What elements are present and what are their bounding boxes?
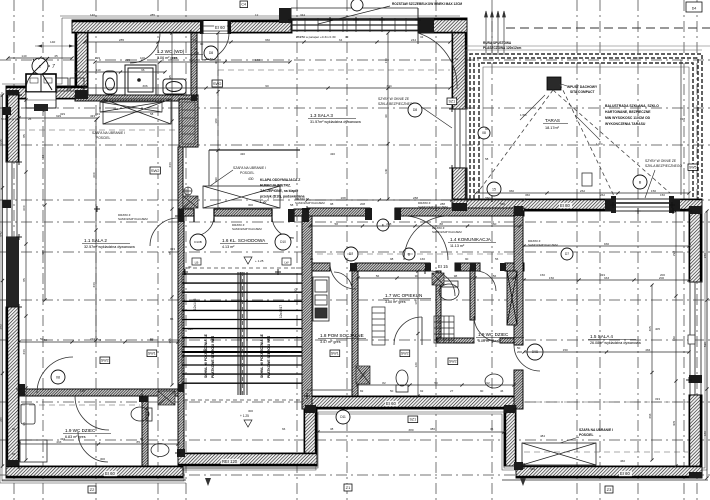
- svg-text:SW2: SW2: [213, 81, 222, 86]
- svg-text:95: 95: [168, 75, 172, 79]
- dim chain baths: [356, 383, 515, 386]
- exterior bottom-right wall (EI 60): [516, 466, 702, 478]
- svg-text:640: 640: [0, 231, 2, 236]
- corridor south wall seg a: [307, 263, 330, 271]
- svg-text:EI 60: EI 60: [215, 25, 225, 30]
- ei labels: [214, 25, 227, 30]
- terrace dashed slope diagonals: [478, 90, 553, 192]
- svg-text:90: 90: [480, 389, 484, 393]
- svg-text:155: 155: [168, 338, 172, 343]
- svg-text:333: 333: [41, 155, 45, 160]
- svg-text:56: 56: [495, 257, 499, 261]
- svg-text:34: 34: [339, 38, 343, 42]
- svg-text:430: 430: [330, 152, 335, 156]
- dim chain x218 sala3: [216, 31, 219, 210]
- door jamb marks corridor north: [194, 208, 395, 222]
- exterior notch right vertical wall: [504, 409, 516, 466]
- svg-text:250: 250: [296, 35, 301, 39]
- stair side edges: [182, 274, 302, 390]
- svg-text:ZACZEPIONE, na klapie: ZACZEPIONE, na klapie: [260, 189, 298, 193]
- dim chain corridor lower: [308, 224, 521, 227]
- svg-text:D10: D10: [280, 240, 286, 244]
- svg-text:329: 329: [60, 112, 65, 116]
- svg-text:930: 930: [604, 242, 609, 246]
- svg-text:120: 120: [414, 362, 418, 367]
- svg-text:360: 360: [525, 193, 530, 197]
- shower center grid: [434, 316, 454, 343]
- wall step block at x=280: [279, 8, 291, 23]
- stair center stringer: [238, 272, 247, 395]
- toilet wc 1.2: [103, 71, 117, 94]
- svg-text:58: 58: [150, 112, 154, 116]
- axis circle 08 right wall: [478, 127, 490, 139]
- svg-text:50: 50: [294, 288, 298, 292]
- terrace slope arrow 2: [575, 115, 600, 140]
- svg-text:SW1: SW1: [148, 352, 156, 356]
- door circle E corridor: [377, 219, 389, 231]
- svg-text:484: 484: [645, 348, 650, 352]
- svg-text:SW2: SW2: [151, 168, 160, 173]
- circle cross marker alcove: [184, 187, 192, 195]
- wc 1.2 bottom wall: [75, 95, 198, 101]
- svg-text:L.27: L.27: [260, 200, 267, 204]
- porch door frame: [26, 74, 56, 92]
- svg-text:250 a parapet +0.3m 0.30: 250 a parapet +0.3m 0.30: [300, 35, 336, 39]
- svg-text:SZYBY W OKNIE ZE: SZYBY W OKNIE ZE: [645, 159, 677, 163]
- wardrobe crossed box sala4: [522, 443, 596, 465]
- svg-text:32.57m² wykladzina dywanowa: 32.57m² wykladzina dywanowa: [84, 245, 136, 249]
- svg-text:360: 360: [265, 38, 270, 42]
- svg-text:90: 90: [384, 114, 388, 118]
- svg-text:405: 405: [655, 327, 660, 331]
- porch dim 140: [35, 45, 76, 47]
- dim chain left outer: [1, 93, 4, 467]
- svg-text:SW1: SW1: [331, 352, 339, 356]
- svg-text:56: 56: [376, 274, 380, 278]
- svg-text:208: 208: [360, 202, 365, 206]
- svg-text:96: 96: [141, 68, 145, 72]
- dim chain terrace right: [680, 60, 682, 195]
- axis circle 2 porch: [32, 58, 48, 74]
- svg-text:1.6 KL. SCHODOWA: 1.6 KL. SCHODOWA: [222, 238, 266, 243]
- axis circle 08 sala2: [51, 370, 65, 384]
- svg-text:B: B: [639, 180, 642, 184]
- svg-text:95: 95: [22, 389, 26, 393]
- sala4 west wall lower: [514, 370, 523, 409]
- room label wc 1.2: [155, 49, 203, 60]
- exterior wall right of sala3 upper: [452, 33, 467, 109]
- label SW1 pom: [330, 350, 340, 357]
- svg-text:90: 90: [465, 257, 469, 261]
- left wall dark segment (shutter box): [6, 237, 19, 307]
- terrace south wall right part: [672, 199, 702, 211]
- center bath wall 2: [470, 271, 475, 320]
- door arc sala2 southwest: [37, 357, 73, 393]
- shower wc 1.2: [125, 65, 156, 95]
- dim chain right outer: [705, 209, 708, 479]
- svg-text:31.57m² wykladzina dywanowa: 31.57m² wykladzina dywanowa: [310, 120, 362, 124]
- big arc corridor second: [404, 216, 448, 260]
- exterior right wall upper: [689, 211, 702, 282]
- duct inner lines: [182, 102, 195, 144]
- svg-text:405: 405: [648, 326, 652, 331]
- label SZ1 top: [447, 98, 457, 105]
- door circle B corridor: [403, 248, 415, 260]
- svg-text:35: 35: [490, 427, 494, 431]
- svg-text:15: 15: [492, 187, 496, 191]
- svg-text:344: 344: [300, 13, 305, 17]
- svg-text:150: 150: [651, 189, 656, 193]
- tub wc dziec: [20, 440, 47, 462]
- stair top landing triangle: [244, 257, 252, 264]
- second door arc wc wd: [130, 33, 160, 63]
- svg-text:140: 140: [90, 13, 95, 17]
- svg-text:430: 430: [240, 152, 245, 156]
- svg-text:HH: HH: [287, 350, 291, 354]
- toilet center 1: [439, 281, 459, 300]
- room label komunikacja: [448, 237, 496, 248]
- svg-text:484: 484: [530, 467, 535, 471]
- svg-text:198: 198: [80, 389, 85, 393]
- svg-text:1.9 WC DZIEC: 1.9 WC DZIEC: [478, 332, 509, 337]
- door circle D10B: [190, 234, 206, 250]
- duct shaft block right of wc: [179, 99, 198, 147]
- door circle D11 notch: [336, 410, 350, 424]
- dim chain left inner2: [43, 108, 46, 301]
- svg-text:POSCIEL: POSCIEL: [579, 433, 593, 437]
- svg-text:SZKLA BEZPIECZNEGO: SZKLA BEZPIECZNEGO: [645, 164, 682, 168]
- svg-text:85: 85: [22, 278, 26, 282]
- rozstaw leader diagonal: [318, 6, 390, 24]
- svg-text:PLATKOWE SZEROKI WEJ: PLATKOWE SZEROKI WEJ: [267, 336, 271, 378]
- door arc D10B stairs: [194, 216, 214, 236]
- terrace door window block: [611, 196, 674, 213]
- corridor north wall seg d: [307, 208, 370, 216]
- svg-text:333: 333: [92, 282, 96, 287]
- bottom facade lines: [2, 468, 708, 480]
- svg-text:170: 170: [414, 299, 418, 304]
- stair center dashed line: [242, 272, 244, 395]
- svg-text:SAMOZAMYKACZEM: SAMOZAMYKACZEM: [118, 217, 148, 221]
- svg-text:56: 56: [310, 257, 314, 261]
- svg-text:KLAPA ODDYMIAJACA Z: KLAPA ODDYMIAJACA Z: [260, 178, 300, 182]
- label SW5 right: [688, 164, 697, 170]
- svg-text:405: 405: [672, 421, 676, 426]
- dashed ceiling sala3: [218, 69, 450, 71]
- room label sala 4: [588, 334, 642, 345]
- svg-text:380: 380: [430, 427, 435, 431]
- svg-text:D11: D11: [340, 415, 346, 419]
- stair tag boxes: [192, 258, 291, 265]
- exterior wall right of sala3 lower: [452, 168, 467, 210]
- corridor south wall seg d: [505, 263, 524, 271]
- svg-text:Z3: Z3: [607, 487, 612, 492]
- svg-text:D8: D8: [413, 108, 417, 112]
- svg-text:160: 160: [672, 336, 676, 341]
- svg-text:D7: D7: [565, 252, 569, 256]
- svg-text:92: 92: [486, 381, 490, 385]
- svg-text:12x14,6: 12x14,6: [193, 298, 197, 310]
- door arc D9B sala4: [514, 345, 540, 371]
- svg-text:140: 140: [255, 58, 260, 62]
- kitchen counter pom socjalne: [313, 277, 329, 321]
- svg-text:WYKONCZENIA TARASU: WYKONCZENIA TARASU: [605, 122, 646, 126]
- svg-text:385: 385: [0, 324, 2, 329]
- svg-text:229: 229: [125, 58, 130, 62]
- door arc corridor D7: [330, 263, 356, 289]
- svg-text:140: 140: [384, 168, 388, 173]
- wc 1.2 right wall: [191, 33, 197, 97]
- duct crossed box bath 1: [356, 366, 370, 384]
- top window band x292-418: [291, 8, 418, 32]
- left wall pier lower: [2, 200, 11, 208]
- svg-text:250: 250: [0, 139, 2, 144]
- svg-text:484: 484: [540, 434, 545, 438]
- svg-text:08: 08: [56, 375, 60, 379]
- svg-text:333: 333: [170, 247, 175, 251]
- svg-text:POSCIEL: POSCIEL: [96, 136, 110, 140]
- svg-text:140: 140: [21, 54, 26, 58]
- svg-text:306: 306: [142, 84, 147, 88]
- svg-text:150: 150: [660, 193, 665, 197]
- svg-text:244: 244: [411, 38, 416, 42]
- corridor south wall seg c: [455, 263, 480, 271]
- svg-text:85: 85: [170, 317, 174, 321]
- exterior wall porch horizontal left: [6, 86, 28, 99]
- center bath wall 1: [436, 271, 441, 341]
- room label sala 3: [308, 113, 362, 124]
- svg-text:640: 640: [703, 431, 707, 436]
- label SZ1 notch: [408, 416, 418, 423]
- svg-text:60: 60: [12, 427, 16, 431]
- wc dziec north wall: [19, 389, 178, 396]
- svg-text:08: 08: [482, 131, 486, 135]
- svg-text:TARAS: TARAS: [545, 118, 560, 123]
- wardrobe crossed box sala2 top: [103, 99, 171, 124]
- svg-text:92: 92: [420, 389, 424, 393]
- svg-text:100: 100: [140, 56, 145, 60]
- svg-text:1.2 WC (WD): 1.2 WC (WD): [157, 49, 185, 54]
- dim chain sala4: [650, 283, 653, 461]
- svg-text:SCHNL 90 POKRECZNIA SE: SCHNL 90 POKRECZNIA SE: [260, 333, 264, 378]
- svg-text:12: 12: [255, 13, 259, 17]
- wardrobe crossed box alcove: [203, 186, 280, 208]
- svg-text:Z2: Z2: [90, 487, 95, 492]
- svg-text:98: 98: [454, 274, 458, 278]
- terrace south wall left part (EI 80): [452, 199, 613, 211]
- alcove west wall: [178, 147, 183, 216]
- svg-text:229: 229: [95, 56, 100, 60]
- sala4 west wall upper: [514, 211, 523, 345]
- label Z3 bottom right: [605, 486, 613, 493]
- label D4 top right: [686, 2, 702, 12]
- svg-text:288: 288: [440, 202, 445, 206]
- svg-text:300: 300: [100, 457, 105, 461]
- door arc wc opiekun: [394, 317, 422, 345]
- dim chain top left porch: [6, 56, 73, 59]
- svg-text:27: 27: [450, 389, 454, 393]
- svg-text:85: 85: [22, 134, 26, 138]
- svg-text:SZAFA NA UBRANIE I: SZAFA NA UBRANIE I: [233, 166, 266, 170]
- toilet wc dziec 1: [131, 407, 152, 421]
- axis circle B terrace: [633, 175, 647, 189]
- dim chain wcdziec: [17, 442, 179, 445]
- exterior bottom-left wall (EI 60): [6, 466, 183, 478]
- svg-text:BALUSTRADA SZKLANA, SZKLO: BALUSTRADA SZKLANA, SZKLO: [605, 104, 659, 108]
- dim chain terrace bottom: [474, 191, 690, 194]
- svg-text:4.13 m²: 4.13 m²: [222, 245, 235, 249]
- center bath horizontal wall: [437, 338, 474, 343]
- svg-text:26: 26: [28, 117, 32, 121]
- svg-text:1.3 SALA 3: 1.3 SALA 3: [310, 113, 333, 118]
- duct crossed box wcdziec: [158, 391, 175, 405]
- big arc corridor: [404, 216, 448, 260]
- svg-text:3.00 m² gres: 3.00 m² gres: [385, 300, 406, 304]
- door arc D8 wc: [202, 33, 229, 60]
- svg-text:333: 333: [168, 162, 172, 167]
- svg-text:66: 66: [282, 427, 286, 431]
- window in right sala3 wall: [452, 109, 467, 168]
- svg-text:50: 50: [44, 338, 48, 342]
- svg-text:ROZSTAW SZCZEBELKOW WNEKI MAX: ROZSTAW SZCZEBELKOW WNEKI MAX 12CM: [392, 2, 462, 6]
- dim chain stairs left: [239, 272, 241, 395]
- svg-text:82: 82: [382, 381, 386, 385]
- svg-text:333: 333: [600, 273, 605, 277]
- svg-text:1.5%: 1.5%: [596, 142, 603, 146]
- exterior wall porch horizontal right: [55, 86, 88, 99]
- svg-text:208: 208: [341, 196, 346, 200]
- svg-text:12: 12: [193, 38, 197, 42]
- svg-text:285: 285: [150, 13, 155, 17]
- dashed corridor: [307, 253, 520, 255]
- svg-text:SITA COMPACT: SITA COMPACT: [570, 90, 594, 94]
- exterior wall top-left vertical (porch side): [75, 20, 88, 86]
- wc dziec divider wall: [142, 396, 148, 466]
- corridor north wall seg c: [294, 209, 307, 216]
- svg-text:270: 270: [470, 87, 475, 91]
- porch door swing arc: [26, 66, 50, 90]
- label SW2 wc top: [212, 80, 222, 87]
- dim chain sala2 below wardrobe: [17, 116, 99, 119]
- svg-text:200: 200: [517, 350, 522, 354]
- terrace inner edge: [483, 67, 689, 199]
- svg-text:90: 90: [345, 257, 349, 261]
- exterior right wall lower: [689, 395, 702, 478]
- svg-text:82: 82: [360, 389, 364, 393]
- svg-text:SCHNL 90 POKRECZNIA SE: SCHNL 90 POKRECZNIA SE: [204, 333, 208, 378]
- window in right wall: [688, 282, 702, 395]
- svg-text:EI 60: EI 60: [105, 471, 115, 476]
- svg-text:26.08m² wykladzina dywanowa: 26.08m² wykladzina dywanowa: [590, 341, 642, 345]
- dim chain sill y88: [82, 86, 451, 89]
- stair level mark bottom: [244, 420, 252, 427]
- stair left wall: [178, 216, 184, 453]
- svg-text:+ 1.25: + 1.25: [240, 414, 249, 418]
- svg-text:18.17m²: 18.17m²: [545, 126, 560, 130]
- center bath horizontal wall b: [500, 338, 514, 343]
- svg-text:C4: C4: [241, 3, 246, 7]
- svg-text:6.83 m² gres: 6.83 m² gres: [65, 435, 86, 439]
- label SW2 wcdziec: [100, 357, 110, 364]
- door arc wc dziec inner: [78, 432, 108, 462]
- svg-text:560: 560: [491, 222, 496, 226]
- svg-text:46: 46: [500, 389, 504, 393]
- svg-text:333: 333: [655, 397, 660, 401]
- door arc top sala3: [418, 33, 457, 89]
- porch door swing diagonal: [33, 59, 52, 90]
- svg-text:MIN WYSOKOSC 110CM OD: MIN WYSOKOSC 110CM OD: [605, 116, 651, 120]
- svg-text:50: 50: [390, 389, 394, 393]
- dark duct strip sala4 wall: [507, 271, 517, 325]
- svg-text:SAMOZAMYKACZEM: SAMOZAMYKACZEM: [232, 227, 262, 231]
- svg-text:D4: D4: [692, 7, 697, 11]
- roof overhang dashed line above terrace: [506, 27, 710, 29]
- svg-text:7: 7: [52, 64, 55, 70]
- svg-text:600: 600: [92, 172, 96, 177]
- stair top landing dashed: [186, 267, 302, 269]
- svg-text:208: 208: [386, 222, 391, 226]
- svg-text:590: 590: [703, 342, 707, 347]
- door circle D10: [275, 234, 291, 250]
- staircase treads: [182, 274, 302, 383]
- svg-text:38: 38: [330, 427, 334, 431]
- svg-text:360: 360: [509, 189, 514, 193]
- svg-text:SW5: SW5: [689, 165, 696, 169]
- dim chain below top wall: [83, 40, 451, 43]
- svg-text:EI 80: EI 80: [560, 203, 570, 208]
- svg-text:50: 50: [434, 381, 438, 385]
- label SW2 center1: [400, 350, 410, 357]
- svg-text:SAMOZAMYKACZEM: SAMOZAMYKACZEM: [528, 243, 558, 247]
- leader to wardrobe: [210, 170, 233, 186]
- svg-text:560: 560: [500, 202, 505, 206]
- svg-text:1.5%: 1.5%: [520, 113, 527, 117]
- porch step rects: [56, 78, 84, 91]
- room label wc dziec left: [63, 428, 111, 439]
- exterior left wall lower: [6, 307, 19, 466]
- dim chain notch: [316, 430, 505, 433]
- svg-text:170: 170: [384, 58, 388, 63]
- axis circle slash: [31, 57, 49, 75]
- svg-text:SAMOZAMYKACZEM: SAMOZAMYKACZEM: [295, 201, 325, 205]
- label Z2 bottom left: [88, 486, 96, 493]
- svg-text:98: 98: [390, 257, 394, 261]
- svg-text:200: 200: [194, 51, 199, 55]
- sink wc dziec left: [21, 404, 35, 424]
- svg-text:140: 140: [172, 56, 177, 60]
- dim chain wc inner: [74, 70, 166, 73]
- svg-text:+ 1.25: + 1.25: [255, 259, 264, 263]
- svg-text:58: 58: [485, 157, 489, 161]
- svg-text:333: 333: [22, 349, 26, 354]
- terrace railing dashed lines: [470, 54, 702, 199]
- svg-text:SZAFA NA UBRANIE I: SZAFA NA UBRANIE I: [92, 131, 125, 135]
- svg-text:1.7 WC OPIEKUN: 1.7 WC OPIEKUN: [385, 293, 422, 298]
- svg-text:HH: HH: [203, 348, 207, 352]
- svg-text:EI 60: EI 60: [386, 401, 396, 406]
- terrace drain block: [547, 77, 561, 90]
- svg-text:SW2: SW2: [401, 352, 409, 356]
- dim chain corridor: [305, 198, 525, 201]
- door D8 opening in top wall: [203, 21, 228, 33]
- svg-text:SCIANA gr 25: SCIANA gr 25: [1, 117, 19, 121]
- svg-text:262: 262: [580, 189, 585, 193]
- door circle D8b: [408, 103, 422, 117]
- svg-text:90: 90: [265, 84, 269, 88]
- svg-text:POSCIEL: POSCIEL: [240, 171, 254, 175]
- svg-text:100: 100: [190, 58, 195, 62]
- svg-text:34: 34: [420, 35, 424, 39]
